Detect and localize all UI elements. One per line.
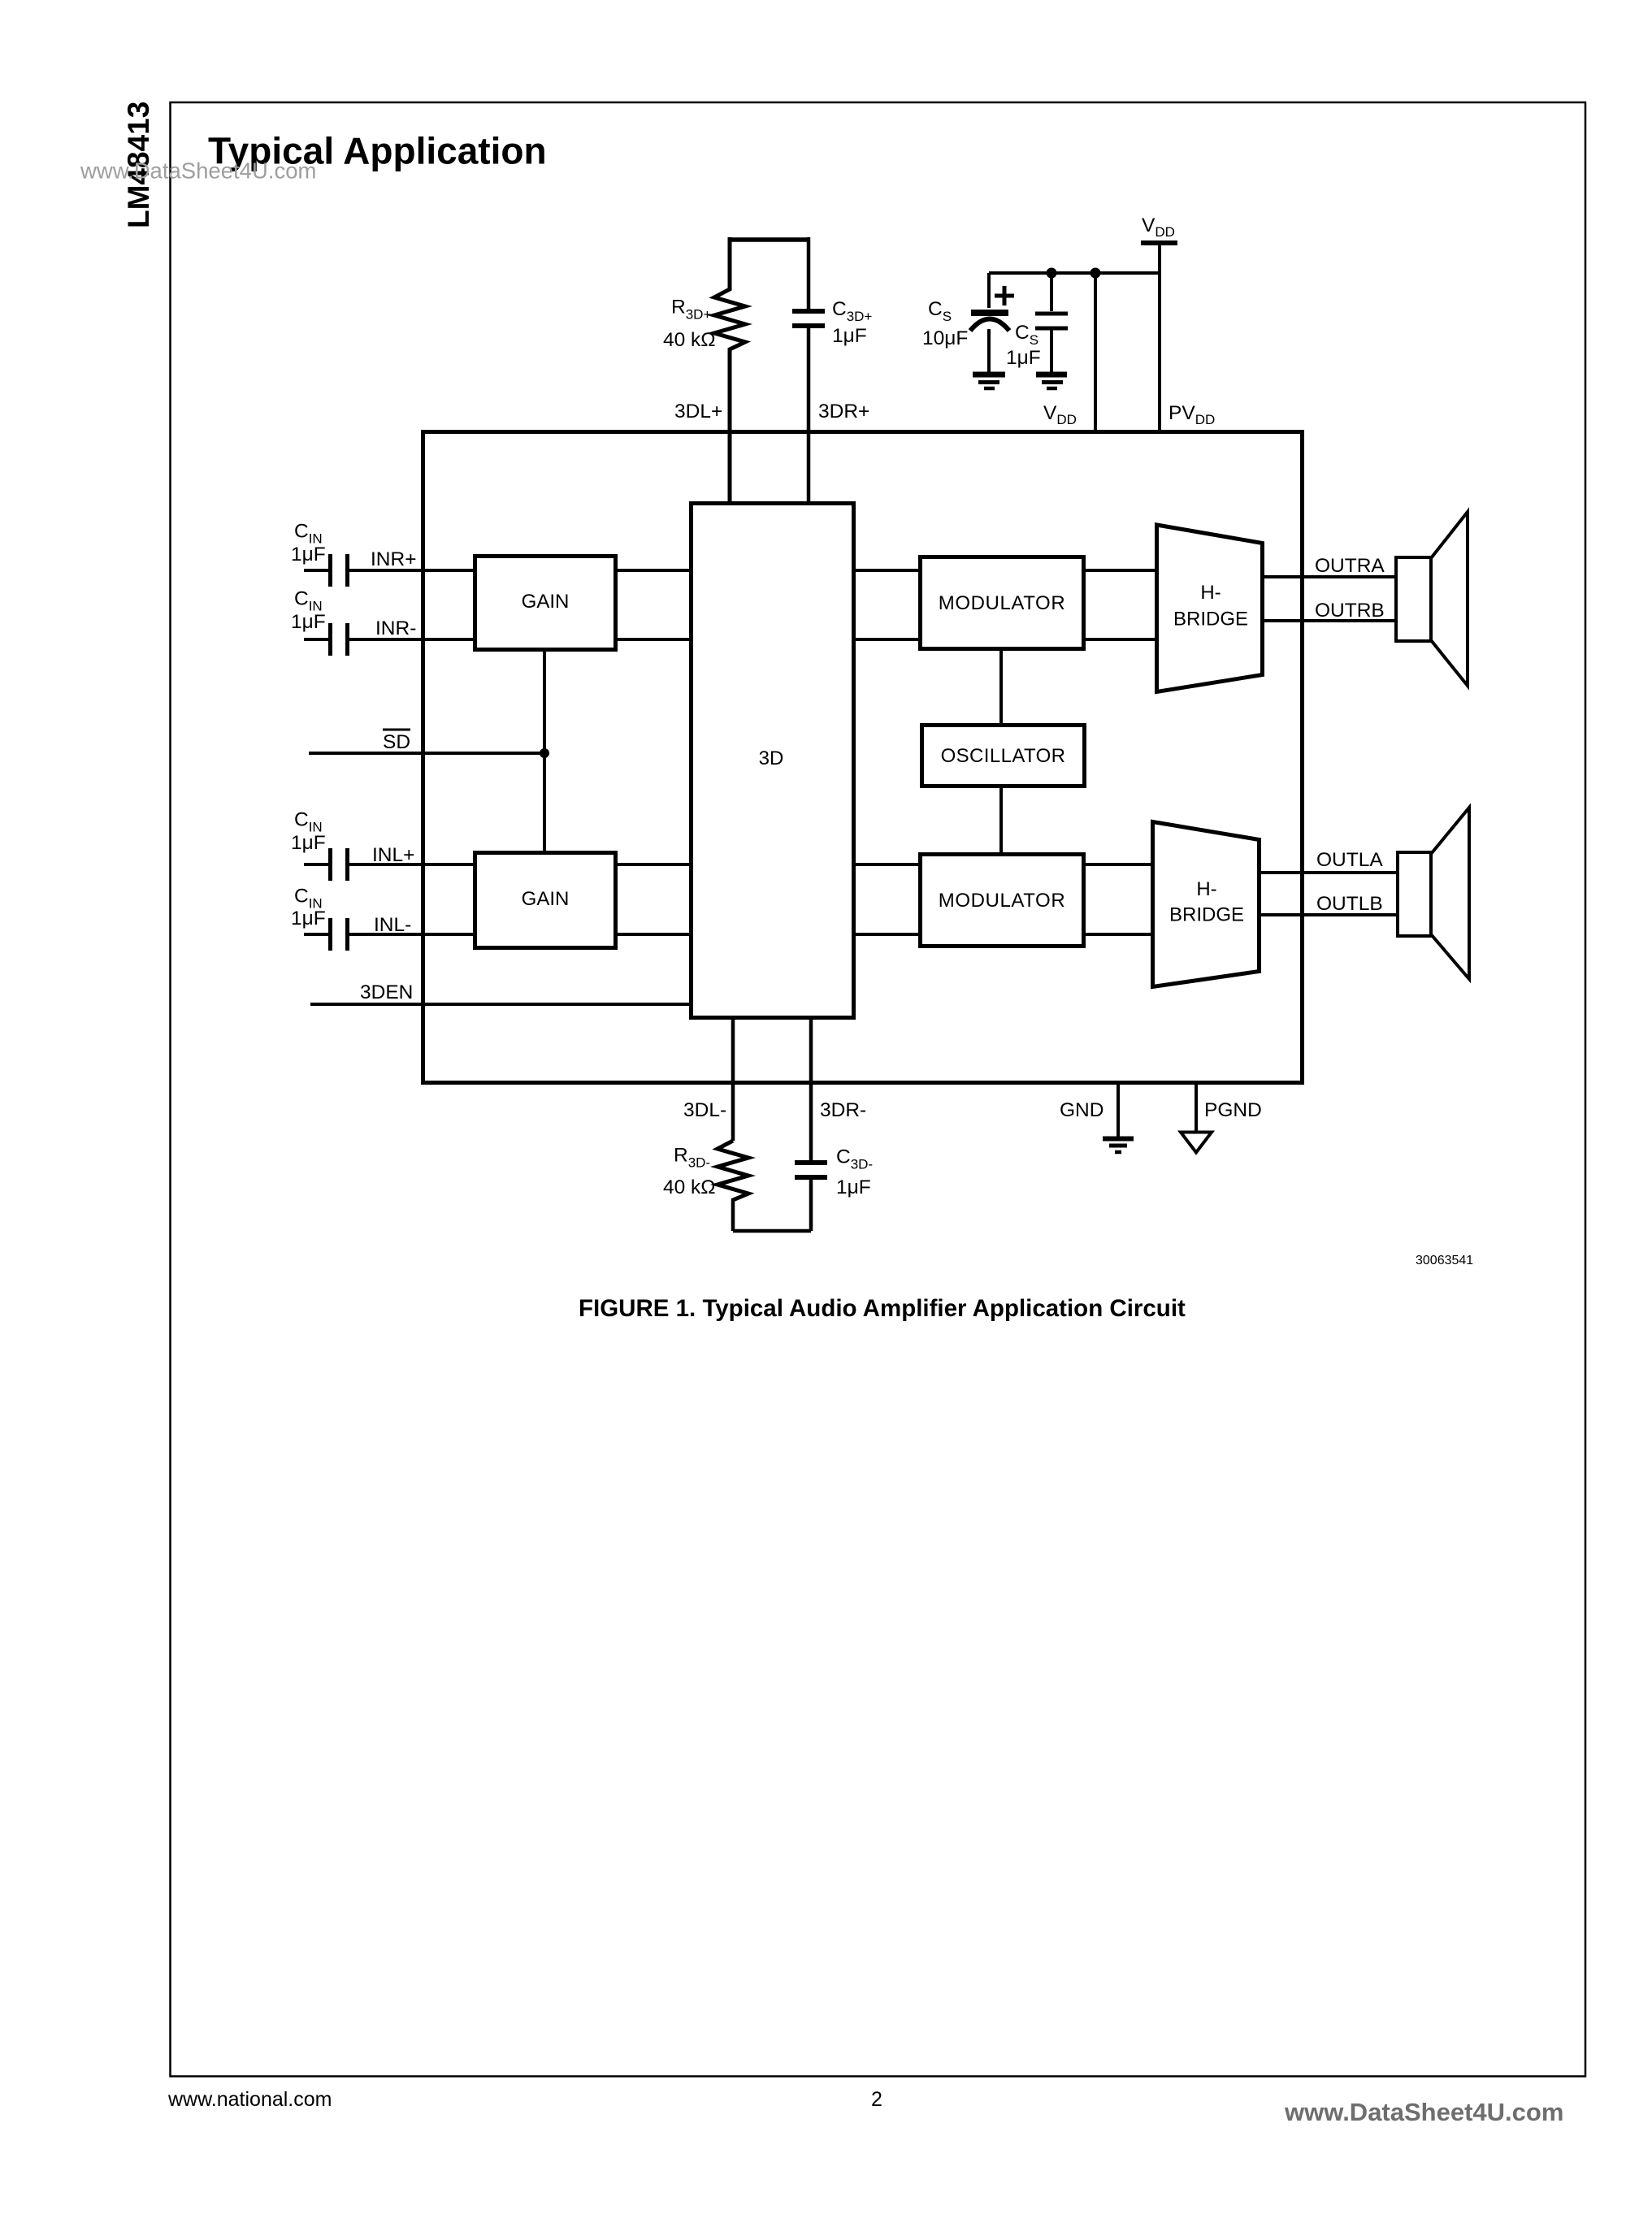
- svg-text:GAIN: GAIN: [522, 888, 570, 910]
- svg-text:MODULATOR: MODULATOR: [939, 890, 1066, 912]
- svg-text:MODULATOR: MODULATOR: [939, 592, 1066, 614]
- svg-text:30063541: 30063541: [1416, 1254, 1473, 1267]
- svg-text:1μF: 1μF: [1006, 347, 1041, 369]
- svg-text:OSCILLATOR: OSCILLATOR: [941, 745, 1066, 767]
- svg-text:INL+: INL+: [372, 844, 414, 866]
- svg-text:3DEN: 3DEN: [360, 981, 413, 1003]
- svg-text:1μF: 1μF: [836, 1176, 871, 1198]
- svg-text:PGND: PGND: [1204, 1099, 1262, 1121]
- svg-text:1μF: 1μF: [291, 544, 326, 565]
- svg-text:BRIDGE: BRIDGE: [1169, 904, 1244, 926]
- svg-text:BRIDGE: BRIDGE: [1173, 609, 1248, 630]
- svg-text:INR-: INR-: [375, 617, 416, 639]
- svg-text:H-: H-: [1200, 582, 1221, 604]
- svg-text:3DR+: 3DR+: [818, 401, 869, 422]
- svg-text:40 kΩ: 40 kΩ: [663, 1176, 716, 1198]
- svg-text:OUTLB: OUTLB: [1316, 893, 1383, 915]
- svg-text:SD: SD: [383, 731, 410, 753]
- svg-text:OUTLA: OUTLA: [1316, 849, 1383, 871]
- svg-text:GAIN: GAIN: [522, 591, 570, 613]
- svg-text:www.DataSheet4U.com: www.DataSheet4U.com: [1284, 2098, 1563, 2126]
- svg-text:1μF: 1μF: [291, 832, 326, 854]
- svg-text:3D: 3D: [759, 747, 784, 769]
- svg-text:H-: H-: [1196, 878, 1216, 900]
- svg-text:1μF: 1μF: [832, 325, 867, 347]
- svg-text:INR+: INR+: [371, 548, 417, 570]
- svg-text:3DL+: 3DL+: [674, 401, 722, 422]
- svg-text:10μF: 10μF: [922, 327, 968, 349]
- svg-text:FIGURE 1. Typical Audio Amplif: FIGURE 1. Typical Audio Amplifier Applic…: [579, 1295, 1186, 1322]
- svg-text:www.DataSheet4U.com: www.DataSheet4U.com: [80, 158, 316, 184]
- svg-text:www.national.com: www.national.com: [167, 2088, 332, 2111]
- svg-text:40 kΩ: 40 kΩ: [663, 329, 716, 351]
- svg-text:OUTRB: OUTRB: [1315, 600, 1385, 622]
- svg-text:INL-: INL-: [374, 914, 411, 936]
- svg-text:OUTRA: OUTRA: [1315, 555, 1385, 577]
- svg-text:GND: GND: [1060, 1099, 1104, 1121]
- svg-text:1μF: 1μF: [291, 611, 326, 633]
- svg-text:1μF: 1μF: [291, 908, 326, 929]
- svg-text:3DR-: 3DR-: [820, 1099, 866, 1121]
- svg-text:2: 2: [871, 2088, 882, 2111]
- svg-text:3DL-: 3DL-: [683, 1099, 726, 1121]
